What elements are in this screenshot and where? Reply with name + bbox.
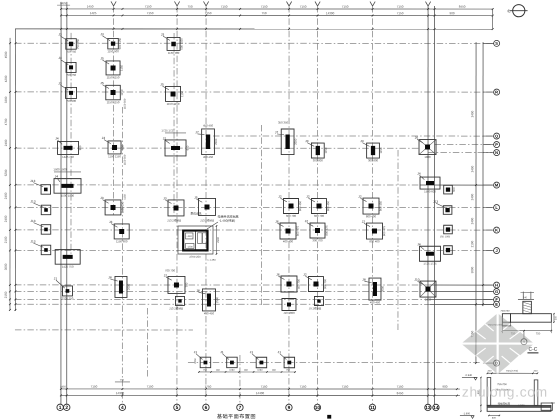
svg-text:J1: J1 — [220, 350, 224, 354]
svg-text:基坑详见: 基坑详见 — [190, 212, 201, 216]
column J8 at 121,287 — [115, 276, 127, 297]
svg-text:700 700: 700 700 — [165, 268, 176, 272]
label J3 leader — [103, 200, 109, 204]
svg-text:2700 250: 2700 250 — [189, 256, 201, 259]
label J3 leader — [166, 200, 172, 203]
column J5 at 113,92.6 — [106, 85, 121, 100]
svg-text:800 475: 800 475 — [325, 225, 329, 236]
label J5 leader — [103, 85, 109, 89]
column cap at 289,304.5 — [282, 299, 296, 311]
svg-text:8450: 8450 — [397, 391, 404, 395]
svg-text:2500: 2500 — [127, 283, 131, 290]
svg-text:450 450: 450 450 — [203, 123, 214, 127]
column J13 at 447.6,210 — [443, 206, 452, 215]
elevator pit inner partitions — [194, 231, 196, 249]
svg-text:750: 750 — [188, 5, 193, 9]
svg-text:7150: 7150 — [261, 385, 268, 389]
svg-text:1080: 1080 — [257, 369, 263, 372]
label J1 leader — [222, 354, 229, 360]
svg-text:-1.450(待定): -1.450(待定) — [219, 219, 236, 223]
svg-text:H: H — [495, 282, 498, 287]
column J13 at 46,210 — [41, 205, 51, 215]
svg-text:800 400: 800 400 — [369, 239, 380, 243]
svg-text:14400: 14400 — [256, 391, 265, 395]
column cap at 67.7,257 — [55, 250, 80, 265]
label J1 leader — [280, 354, 287, 360]
svg-text:1150: 1150 — [120, 64, 124, 70]
svg-text:J5: J5 — [100, 57, 104, 61]
svg-text:1725 1725: 1725 1725 — [161, 128, 175, 132]
svg-text:J1: J1 — [54, 277, 58, 281]
column J13 at 45.8,189.5 — [41, 185, 51, 195]
svg-text:350 350: 350 350 — [278, 120, 289, 124]
svg-text:J: J — [495, 248, 497, 253]
svg-text:400 400: 400 400 — [283, 239, 294, 243]
svg-text:N: N — [495, 150, 498, 155]
svg-text:300 700: 300 700 — [286, 214, 297, 218]
hatched column J10 at 428,289 — [420, 281, 436, 297]
column J3 at 121.7,231.5 — [114, 224, 129, 239]
pile cap dimension row — [199, 371, 296, 373]
column J1 at 261.5,362.5 — [256, 357, 267, 368]
svg-text:14: 14 — [433, 405, 439, 411]
left dimension chain — [9, 38, 11, 310]
svg-text:1500 1500: 1500 1500 — [61, 194, 75, 198]
svg-text:900 450: 900 450 — [379, 201, 383, 212]
svg-text:200: 200 — [533, 370, 538, 373]
label J3 leader — [307, 143, 314, 147]
svg-text:J3: J3 — [305, 139, 309, 143]
label J3 leader — [111, 224, 117, 228]
svg-text:750x(7700): 750x(7700) — [506, 370, 518, 373]
svg-text:450 450: 450 450 — [203, 155, 214, 159]
svg-text:J6: J6 — [415, 136, 419, 140]
svg-text:-0.940: -0.940 — [465, 374, 473, 377]
svg-text:200: 200 — [487, 370, 492, 373]
svg-text:2: 2 — [65, 405, 68, 411]
column J4 at 68,148 — [58, 141, 79, 154]
svg-text:J2: J2 — [306, 195, 310, 199]
svg-text:2400: 2400 — [470, 217, 474, 224]
svg-text:300 700: 300 700 — [323, 279, 327, 290]
label J8 leader — [110, 279, 117, 281]
svg-text:J8: J8 — [108, 276, 112, 280]
svg-text:J3: J3 — [100, 196, 104, 200]
svg-text:900: 900 — [186, 145, 190, 150]
label J3 leader — [104, 140, 111, 144]
svg-text:7150: 7150 — [397, 385, 404, 389]
column cap at 448,250 — [444, 246, 453, 255]
svg-text:6: 6 — [205, 405, 208, 411]
svg-text:-1.500: -1.500 — [517, 404, 525, 407]
pit section bottom dim — [489, 414, 500, 416]
label J4 leader — [420, 175, 425, 179]
svg-text:1150 500: 1150 500 — [124, 98, 127, 109]
svg-text:900: 900 — [78, 145, 82, 150]
label J13 leader — [33, 183, 43, 187]
svg-text:J3: J3 — [58, 56, 62, 60]
svg-text:1150: 1150 — [379, 147, 383, 153]
column cap at 448,189.6 — [444, 185, 453, 194]
svg-text:700: 700 — [185, 282, 189, 287]
svg-text:J3: J3 — [161, 33, 165, 37]
column J5 at 173,94 — [166, 86, 181, 101]
svg-text:1200: 1200 — [187, 246, 193, 249]
svg-text:1150 500: 1150 500 — [120, 201, 124, 213]
column J1 at 289.4,362.5 — [284, 357, 295, 368]
svg-text:1450: 1450 — [87, 5, 94, 9]
svg-text:E: E — [495, 302, 498, 307]
elevator pit right dim — [215, 226, 217, 254]
svg-text:基础平面布置图: 基础平面布置图 — [217, 413, 256, 420]
svg-text:300 800: 300 800 — [313, 158, 324, 162]
label J4 leader — [419, 246, 424, 250]
svg-text:2500: 2500 — [214, 138, 218, 145]
svg-text:4: 4 — [121, 405, 124, 411]
label J4 leader — [58, 140, 63, 144]
svg-text:900: 900 — [442, 385, 447, 389]
column J5 at 113,68 — [106, 61, 120, 75]
column J4 at 430,253.7 — [419, 246, 440, 261]
svg-text:J2: J2 — [358, 195, 362, 199]
top dimension lines — [61, 8, 493, 10]
column J3 at 71,93 — [66, 87, 77, 98]
vertical grid axis lines — [60, 2, 62, 404]
label J4 leader — [57, 178, 60, 182]
svg-text:P: P — [495, 142, 498, 147]
svg-text:1150 600: 1150 600 — [116, 239, 128, 243]
svg-text:2150: 2150 — [4, 291, 8, 298]
svg-text:7150: 7150 — [147, 11, 154, 15]
column J13 at 46,229.5 — [41, 225, 51, 235]
column J3 at 113,207.5 — [105, 200, 121, 215]
svg-text:4500: 4500 — [4, 51, 8, 58]
svg-text:2400: 2400 — [470, 165, 474, 172]
svg-text:J3: J3 — [100, 32, 104, 36]
label J1 leader — [56, 280, 65, 288]
svg-text:J10 1800: J10 1800 — [283, 311, 295, 315]
svg-text:J2: J2 — [362, 220, 366, 224]
svg-text:800: 800 — [492, 417, 497, 420]
caption legend square — [327, 415, 331, 419]
column J2 at 374.5,231 — [366, 223, 382, 239]
svg-text:J13: J13 — [30, 219, 35, 223]
label J2 leader — [307, 223, 313, 227]
svg-text:J13 2根4桩: J13 2根4桩 — [169, 306, 183, 310]
svg-text:500 1150: 500 1150 — [118, 37, 122, 49]
svg-text:7150: 7150 — [221, 5, 228, 9]
column cap at 180,301 — [175, 296, 184, 305]
svg-text:C-C: C-C — [529, 347, 538, 353]
svg-text:-1.900: -1.900 — [463, 412, 471, 415]
svg-text:J2: J2 — [305, 219, 309, 223]
svg-text:1800: 1800 — [424, 155, 431, 159]
svg-text:J7: J7 — [275, 130, 279, 134]
svg-text:1150: 1150 — [180, 91, 184, 97]
svg-text:1150: 1150 — [120, 89, 124, 95]
column J1 at 67.5,291 — [62, 286, 72, 296]
svg-text:J3: J3 — [360, 139, 364, 143]
column J3 at 114.5,147.5 — [108, 141, 121, 154]
svg-text:J10: J10 — [414, 278, 419, 282]
pit section left dim chain — [480, 377, 482, 411]
svg-text:4700: 4700 — [4, 118, 8, 125]
svg-text:7750: 7750 — [205, 385, 212, 389]
label J5 leader — [197, 199, 203, 202]
svg-text:J1: J1 — [194, 350, 198, 354]
svg-text:3000: 3000 — [470, 266, 474, 273]
svg-text:5: 5 — [176, 405, 179, 411]
column J4 at 67.5,186 — [54, 179, 81, 194]
label J3 leader — [61, 60, 69, 65]
svg-text:6200: 6200 — [4, 169, 8, 176]
label J6 leader — [278, 276, 284, 279]
label J2 leader — [305, 276, 311, 280]
label J13 leader — [33, 223, 43, 227]
svg-text:1150 1150: 1150 1150 — [167, 102, 180, 106]
svg-text:1150 1150: 1150 1150 — [107, 100, 120, 104]
svg-text:11: 11 — [370, 405, 375, 411]
svg-text:300 700: 300 700 — [314, 214, 325, 218]
svg-text:2900: 2900 — [217, 237, 220, 243]
svg-text:J3: J3 — [58, 82, 62, 86]
bottom dimension lines — [61, 388, 460, 390]
label J3 leader — [363, 143, 370, 147]
svg-text:2100: 2100 — [470, 240, 474, 247]
svg-text:500 1150: 500 1150 — [180, 38, 184, 50]
svg-text:1150: 1150 — [124, 194, 127, 200]
svg-text:2200 750: 2200 750 — [62, 296, 74, 300]
label J2 leader — [166, 277, 172, 280]
column J4 at 430,183 — [420, 177, 440, 189]
label J2 leader — [309, 198, 315, 202]
svg-text:J4: J4 — [55, 137, 59, 141]
svg-text:8450: 8450 — [459, 5, 466, 9]
column cap at 448,229.5 — [444, 225, 453, 234]
svg-text:1150 500: 1150 500 — [124, 154, 127, 165]
svg-text:1500 600: 1500 600 — [424, 189, 436, 193]
svg-text:○449: ○449 — [186, 235, 192, 238]
column J3 at 317.8,150.5 — [311, 143, 324, 158]
svg-text:J2: J2 — [163, 137, 167, 141]
svg-text:J5: J5 — [194, 196, 198, 200]
svg-text:900: 900 — [450, 11, 455, 15]
svg-text:2400: 2400 — [4, 192, 8, 199]
svg-text:600: 600 — [452, 187, 456, 192]
label J5 leader — [163, 86, 169, 90]
svg-text:J1: J1 — [250, 350, 254, 354]
svg-text:J13: J13 — [30, 179, 35, 183]
column J13 at 46,250 — [41, 245, 51, 255]
column J1 at 232,362.5 — [227, 357, 238, 368]
svg-text:750 750: 750 750 — [66, 73, 77, 77]
svg-text:J6: J6 — [275, 220, 279, 224]
bottom axis bubbles — [57, 404, 63, 410]
svg-text:Q: Q — [495, 133, 498, 138]
column J3 at 373,150.5 — [367, 143, 380, 158]
svg-text:zhulong.com: zhulong.com — [462, 385, 548, 400]
label J7 leader — [198, 133, 205, 136]
svg-text:1500 1500: 1500 1500 — [53, 167, 67, 171]
C-C right dim — [553, 314, 555, 323]
svg-text:1150 500: 1150 500 — [168, 51, 180, 55]
svg-text:J3: J3 — [58, 33, 62, 37]
svg-text:1725 1725: 1725 1725 — [423, 262, 437, 266]
svg-text:750: 750 — [203, 369, 208, 372]
svg-text:800 475: 800 475 — [382, 226, 386, 237]
svg-text:3300: 3300 — [4, 96, 8, 103]
column J6 at 289,284 — [281, 276, 297, 292]
svg-text:7150: 7150 — [300, 5, 307, 9]
svg-text:J9 2根4桩: J9 2根4桩 — [309, 307, 322, 311]
svg-text:360: 360 — [272, 369, 277, 372]
svg-text:K: K — [495, 227, 498, 232]
svg-text:J8: J8 — [362, 278, 366, 282]
svg-text:14300: 14300 — [116, 391, 125, 395]
north arrow circle — [513, 5, 525, 17]
svg-text:150 1050: 150 1050 — [440, 236, 451, 239]
pit section bottom slab — [487, 405, 551, 411]
svg-text:7: 7 — [239, 405, 242, 411]
svg-text:1425 750: 1425 750 — [62, 265, 74, 269]
svg-text:J2: J2 — [164, 274, 168, 278]
C-C section detail stem — [518, 298, 534, 300]
column J2 at 291,206 — [283, 199, 298, 214]
svg-text:筏板底标高: 筏板底标高 — [498, 402, 511, 406]
top pennant flags on axis lines — [111, 1, 114, 6]
label J2 leader — [281, 198, 287, 202]
label J8 leader — [198, 292, 205, 294]
svg-text:2500: 2500 — [294, 138, 298, 145]
svg-text:750: 750 — [262, 11, 267, 15]
svg-text:J2: J2 — [303, 273, 307, 277]
svg-text:J3: J3 — [163, 197, 167, 201]
column J2 at 316,284 — [308, 277, 323, 292]
svg-text:750 750: 750 750 — [76, 38, 80, 49]
label J6 leader — [277, 223, 283, 226]
column J3 at 71,67.5 — [66, 62, 76, 72]
svg-text:800 475: 800 475 — [296, 226, 300, 237]
column J3 at 173.5,44 — [167, 37, 180, 50]
svg-text:G: G — [495, 289, 498, 294]
svg-text:J6: J6 — [276, 273, 280, 277]
column J8 at 209,300 — [202, 289, 215, 311]
svg-text:J13 2根4桩: J13 2根4桩 — [167, 218, 181, 222]
column J8 at 375,289 — [369, 278, 381, 300]
svg-text:7150: 7150 — [261, 5, 268, 9]
svg-text:750: 750 — [286, 369, 291, 372]
svg-text:7150: 7150 — [397, 11, 404, 15]
label J3 leader — [163, 36, 170, 40]
watermark star logo — [460, 312, 535, 375]
C-C bottom dim — [502, 330, 551, 332]
svg-text:北: 北 — [507, 9, 511, 13]
label J10 leader — [417, 281, 423, 284]
elevator pit thick wall rectangle — [183, 231, 207, 251]
label J3 leader — [61, 36, 69, 41]
column J7 at 208,141.8 — [202, 129, 215, 155]
column J3 at 71,44 — [66, 39, 77, 50]
svg-text:J8: J8 — [196, 289, 200, 293]
svg-text:1150 1150: 1150 1150 — [107, 75, 120, 79]
label J7 leader — [277, 133, 284, 136]
svg-text:13: 13 — [425, 405, 431, 411]
svg-text:9: 9 — [288, 405, 291, 411]
svg-text:J13: J13 — [30, 240, 35, 244]
label J2 leader — [361, 198, 367, 201]
svg-text:J4: J4 — [417, 172, 421, 176]
label J2 leader — [364, 223, 370, 226]
C-C axis bubble — [523, 331, 525, 338]
svg-text:1080: 1080 — [229, 369, 235, 372]
svg-text:J2: J2 — [278, 195, 282, 199]
svg-text:J13: J13 — [433, 200, 438, 204]
svg-text:7150: 7150 — [205, 11, 212, 15]
svg-text:1425 750: 1425 750 — [62, 155, 74, 159]
label J13 leader — [436, 203, 445, 207]
pit section right wall — [534, 380, 538, 406]
svg-text:7150: 7150 — [342, 5, 349, 9]
svg-text:J4: J4 — [55, 175, 59, 179]
svg-text:2425: 2425 — [60, 1, 67, 5]
svg-text:2500: 2500 — [215, 296, 219, 303]
svg-text:2400: 2400 — [4, 139, 8, 146]
label J3 leader — [61, 85, 68, 90]
svg-text:7150: 7150 — [397, 5, 404, 9]
svg-text:J13: J13 — [30, 200, 35, 204]
svg-text:450 450: 450 450 — [370, 300, 381, 304]
svg-text:300 800: 300 800 — [368, 158, 379, 162]
svg-text:J5: J5 — [100, 81, 104, 85]
elevator pit outer outline — [178, 226, 213, 254]
svg-text:10: 10 — [315, 405, 321, 411]
svg-text:1: 1 — [59, 405, 62, 411]
svg-text:900 450: 900 450 — [298, 201, 302, 212]
svg-text:750: 750 — [536, 332, 541, 335]
svg-text:300 700: 300 700 — [312, 238, 323, 242]
column J2 at 319,206 — [311, 199, 326, 214]
column J2 at 371,206 — [363, 198, 379, 214]
label J2 leader — [165, 140, 170, 143]
column J2 at 317.5,230.5 — [310, 223, 325, 238]
svg-text:J4: J4 — [417, 242, 421, 246]
svg-text:R: R — [495, 89, 498, 94]
svg-text:J5: J5 — [160, 83, 164, 87]
right axis bubbles — [483, 42, 494, 44]
svg-text:800 400: 800 400 — [366, 214, 377, 218]
svg-text:S: S — [495, 41, 498, 46]
column J6 at 288,231 — [280, 223, 296, 239]
svg-text:400 700: 400 700 — [297, 279, 301, 290]
label J6 leader — [417, 139, 423, 143]
watermark text zhulong.com — [462, 385, 548, 400]
svg-text:350: 350 — [554, 315, 557, 320]
column J2 at 175.5,148 — [165, 140, 186, 156]
svg-text:2400: 2400 — [425, 297, 432, 301]
label J5 leader — [103, 60, 110, 64]
label J13 leader — [33, 243, 43, 247]
svg-text:750 900: 750 900 — [66, 99, 77, 103]
label J8 leader — [364, 281, 371, 283]
column cap at 319,301 — [314, 297, 323, 306]
svg-text:14300: 14300 — [326, 11, 335, 15]
column J1 at 205.5,362.5 — [200, 357, 211, 368]
svg-text:2250: 2250 — [194, 358, 197, 364]
svg-text:1-1.450: 1-1.450 — [207, 259, 216, 262]
horizontal grid axis lines — [15, 42, 492, 44]
svg-text:J3: J3 — [102, 136, 106, 140]
pit section left wall — [487, 377, 491, 405]
